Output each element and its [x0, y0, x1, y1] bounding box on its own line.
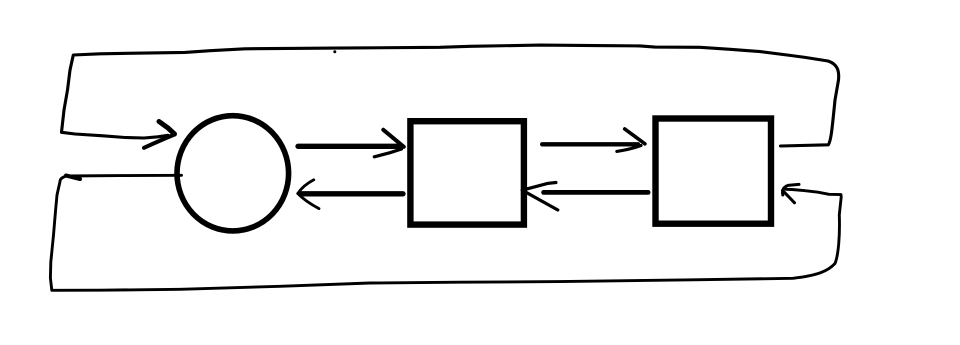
box 1 (process stage 2)	[410, 121, 524, 224]
arrow box1 to box2 (right)	[542, 129, 645, 152]
node circle (process stage 1)	[177, 116, 289, 231]
top feedback loop wire (box2 right side, up over the top, down left side, into circle)	[62, 45, 839, 146]
arrow box1 to circle (left)	[298, 180, 403, 209]
arrowhead of top loop pointing right at circle	[144, 122, 175, 148]
small tick at left end of bottom loop	[66, 176, 80, 180]
bottom feedback loop wire (circle left side, down around bottom, up right side, into box2)	[50, 175, 841, 290]
box 2 (process stage 3)	[656, 119, 772, 224]
arrowhead of bottom loop pointing left at box2	[783, 184, 800, 202]
arrow box2 to box1 (left)	[522, 183, 648, 211]
stray dot on top wire	[333, 50, 336, 53]
arrow circle to box1 (right)	[298, 130, 404, 157]
